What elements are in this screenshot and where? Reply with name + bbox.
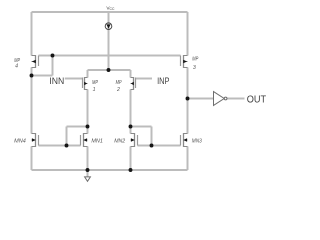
svg-text:3: 3 bbox=[193, 65, 196, 71]
svg-text:2: 2 bbox=[116, 87, 120, 93]
svg-text:MN4: MN4 bbox=[14, 138, 26, 144]
svg-text:MP: MP bbox=[92, 80, 98, 86]
svg-text:1: 1 bbox=[93, 87, 96, 93]
svg-text:OUT: OUT bbox=[247, 94, 266, 105]
svg-text:MN3: MN3 bbox=[192, 139, 203, 145]
svg-text:INP: INP bbox=[157, 76, 169, 87]
svg-text:CC: CC bbox=[110, 7, 115, 11]
svg-text:MN1: MN1 bbox=[91, 138, 103, 144]
svg-text:MN2: MN2 bbox=[114, 138, 126, 144]
svg-text:4: 4 bbox=[15, 63, 18, 69]
svg-text:MP: MP bbox=[192, 56, 198, 62]
svg-text:INN: INN bbox=[49, 76, 64, 87]
svg-text:MP: MP bbox=[116, 80, 122, 86]
